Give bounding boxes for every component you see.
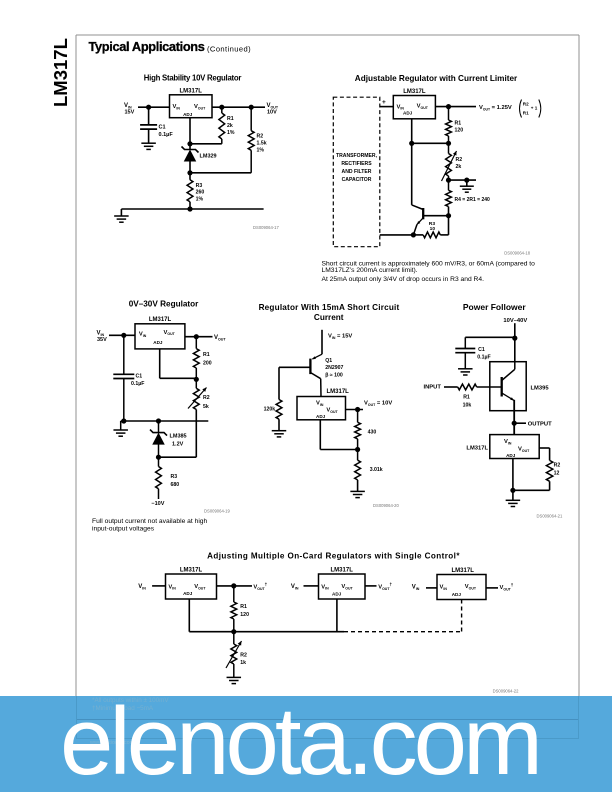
- pin ADJ label (c6 first): [183, 591, 193, 596]
- transistor Q1 (c2): [412, 205, 424, 235]
- svg-text:DS009064-18: DS009064-18: [504, 251, 531, 256]
- svg-text:ADJ: ADJ: [403, 111, 413, 116]
- svg-text:LM317L: LM317L: [452, 568, 475, 574]
- svg-text:input-output voltages: input-output voltages: [92, 526, 155, 533]
- node VIN label 15V (circuit 1): [124, 103, 135, 116]
- elenota.com text: [60, 694, 539, 790]
- junction input/C1 (c1): [146, 105, 151, 110]
- wire U1 ADJ down (c1): [189, 118, 191, 149]
- wire input (c6 third): [426, 587, 437, 589]
- svg-text:VOUT†: VOUT†: [253, 582, 267, 591]
- junction C1/rail (c3): [121, 418, 126, 423]
- circuit 1 title High Stability 10V Regulator: [144, 74, 242, 83]
- svg-text:120k: 120k: [264, 407, 276, 413]
- svg-text:200: 200: [203, 361, 212, 367]
- regulator U4 LM317L box (c4): [297, 389, 349, 420]
- wire U4 output (c4): [346, 409, 364, 411]
- svg-text:DS009064-19: DS009064-19: [204, 509, 231, 514]
- figure code DS009064-20: [373, 503, 400, 508]
- wire transformer to U2 (c2): [380, 106, 394, 108]
- ground rail (c1): [121, 208, 263, 210]
- node VIN 15V label (c4): [328, 334, 352, 340]
- junction zener/R2/R3 (c1): [187, 170, 192, 175]
- svg-text:Adjusting Multiple On-Card Reg: Adjusting Multiple On-Card Regulators wi…: [207, 551, 460, 560]
- wire 120k to ground (c4): [278, 419, 280, 431]
- svg-text:C1: C1: [159, 125, 166, 131]
- svg-text:0.1µF: 0.1µF: [131, 381, 144, 387]
- ground symbol (c2): [460, 186, 474, 192]
- svg-text:Adjustable Regulator with Curr: Adjustable Regulator with Current Limite…: [355, 74, 518, 83]
- svg-text:0.1µF: 0.1µF: [477, 355, 490, 361]
- pin VOUT label (c1): [194, 104, 206, 110]
- junction output/R1 (c6): [231, 583, 236, 588]
- wire base to 120k (c4): [279, 367, 310, 399]
- pin VIN label (c6 second): [321, 584, 329, 590]
- wire emitter to output node (c5): [513, 400, 515, 435]
- regulator U8 LM317L box (c6 second): [319, 568, 366, 600]
- svg-text:VIN: VIN: [412, 585, 420, 591]
- svg-text:β ≈ 100: β ≈ 100: [325, 372, 343, 378]
- svg-text:Current: Current: [314, 313, 344, 322]
- wire rail from transformer (c2): [380, 234, 414, 236]
- svg-text:Regulator With 15mA Short Circ: Regulator With 15mA Short Circuit: [259, 303, 400, 312]
- wire input (c3): [109, 334, 135, 336]
- junction ADJ/ground (c5): [510, 488, 515, 493]
- junction output/R1 (c2): [446, 104, 451, 109]
- footnote minimum load: [92, 705, 153, 712]
- pin VOUT label (c6 second): [341, 584, 353, 590]
- sidebar part number LM317L: [50, 38, 71, 107]
- svg-text:LM317LZ’s 200mA current limit): LM317LZ’s 200mA current limit).: [322, 267, 418, 274]
- wire 3.01k to ground (c4): [357, 480, 359, 492]
- wire input lead (c5): [444, 386, 458, 388]
- wire U1 output rail (c1): [212, 106, 265, 108]
- svg-text:ADJ: ADJ: [506, 453, 516, 458]
- node VOUT = 10V label (c4): [364, 401, 392, 407]
- wire to C1 (c5): [465, 337, 515, 348]
- svg-text:LM317L: LM317L: [403, 89, 426, 95]
- node VIN label (c6 second): [291, 584, 299, 590]
- junction output/R1 (c1): [219, 105, 224, 110]
- svg-text:VOUT: VOUT: [267, 103, 279, 109]
- wire output tick (c5): [514, 422, 526, 424]
- output equation VOUT = 1.25V (R2/R1 + 1) (c2): [479, 100, 541, 118]
- wire C1 to ground (c1): [148, 129, 150, 143]
- svg-text:1%: 1%: [196, 197, 204, 203]
- pin VIN label (c2): [397, 104, 405, 110]
- wire supply down (c5): [514, 323, 516, 362]
- svg-text:120: 120: [455, 128, 464, 134]
- svg-text:2k: 2k: [456, 164, 462, 170]
- ground rail (c3): [121, 420, 209, 422]
- svg-text:LM395: LM395: [531, 386, 550, 392]
- resistor 120k (c4): [264, 400, 282, 420]
- svg-text:LM385: LM385: [170, 434, 187, 440]
- svg-text:1.2V: 1.2V: [172, 442, 184, 448]
- svg-text:260: 260: [196, 190, 205, 196]
- svg-text:Q1: Q1: [325, 358, 332, 364]
- node VIN label (c6 third): [412, 585, 420, 591]
- resistor R1 2k 1% (c1): [219, 113, 235, 139]
- page frame border: [76, 35, 579, 738]
- svg-text:OUTPUT: OUTPUT: [528, 422, 552, 428]
- circuit 2 title Adjustable Regulator with Current Limiter: [355, 74, 518, 83]
- wire zener to lower node (c1): [189, 161, 191, 180]
- junction output/R1 (c3): [194, 334, 199, 339]
- wire C1 stem (c1): [148, 107, 150, 125]
- svg-text:LM317L: LM317L: [149, 317, 172, 323]
- svg-text:Full output current not availa: Full output current not available at hig…: [92, 518, 208, 525]
- caption short circuit current (c2): [322, 260, 536, 283]
- ground symbol (c3): [113, 430, 128, 436]
- svg-text:R2: R2: [203, 395, 210, 401]
- resistor R4 2R1 240 (c2): [446, 190, 490, 206]
- capacitor C1 0.1uF (c1): [140, 125, 173, 138]
- frame remnant lines under banner: [76, 719, 579, 720]
- regulator U3 LM317L box (c3): [135, 317, 185, 349]
- svg-text:R1: R1: [240, 604, 247, 610]
- wire R1 bottom to rail (c6): [233, 619, 235, 632]
- wire supply down to Q1 emitter (c4): [321, 330, 323, 354]
- wire R1 bottom to ADJ node (c1): [190, 139, 222, 144]
- pin VOUT label (c5): [518, 447, 530, 453]
- svg-text:R2: R2: [554, 463, 561, 469]
- svg-text:LM317L: LM317L: [180, 568, 203, 574]
- wire ADJ2 down (c6): [336, 599, 338, 632]
- svg-text:VIN: VIN: [97, 331, 105, 337]
- wire base link (c2): [424, 215, 449, 217]
- svg-text:R1: R1: [523, 111, 529, 116]
- junction OUTPUT (c5): [512, 421, 517, 426]
- regulator U6 LM317L box (c5): [490, 435, 539, 459]
- adjust rail dashed (c6): [344, 631, 462, 633]
- svg-text:VOUT†: VOUT†: [500, 583, 514, 592]
- wire C1 to ground (c5): [464, 353, 466, 369]
- pin ADJ label (c2): [403, 111, 413, 116]
- wire U2 output (c2): [435, 106, 476, 108]
- pin ADJ label (c1): [183, 112, 193, 117]
- node VOUT dagger label (c6 first): [253, 582, 267, 591]
- wire R1 bottom (c3): [195, 368, 197, 388]
- power transistor U5 LM395 box (c5): [490, 362, 550, 411]
- wire R3 to -10V (c3): [158, 489, 160, 499]
- resistor R3 260 1% (c1): [187, 180, 204, 203]
- node VOUT label (c3): [214, 335, 226, 341]
- pin VOUT label (c3): [164, 330, 176, 336]
- pin VOUT label (c2): [417, 104, 429, 110]
- svg-text:VIN = 15V: VIN = 15V: [328, 334, 352, 340]
- wire R1 top lead (c3): [195, 337, 197, 349]
- wire output (c6 third): [486, 587, 498, 589]
- svg-text:At 25mA output only 3/4V of dr: At 25mA output only 3/4V of drop occurs …: [322, 276, 485, 283]
- pin VIN label (c5): [504, 439, 512, 445]
- svg-text:1%: 1%: [227, 130, 235, 136]
- pin VIN label (c4): [316, 401, 324, 407]
- wire 430 bottom to ADJ node (c4): [357, 439, 359, 460]
- svg-text:15V: 15V: [125, 110, 135, 116]
- svg-text:10V–40V: 10V–40V: [503, 318, 527, 324]
- label LM317L (c5): [466, 446, 488, 452]
- potentiometer R2 1k (c6): [226, 632, 247, 668]
- node VIN label 35V (c3): [97, 331, 108, 344]
- node -10V label (c3): [151, 501, 164, 507]
- svg-text:2N2907: 2N2907: [325, 365, 343, 371]
- svg-text:R1: R1: [463, 394, 470, 400]
- ground symbol (c1): [114, 216, 128, 222]
- figure code DS009064-22: [493, 689, 520, 694]
- pin VIN label (c3): [139, 332, 147, 338]
- capacitor C1 0.1uF (c5): [455, 347, 490, 361]
- transistor inside LM395 (c5): [502, 362, 515, 401]
- regulator U1 LM317L box (c1): [170, 89, 213, 118]
- svg-text:High Stability 10V Regulator: High Stability 10V Regulator: [144, 74, 242, 83]
- footer url remnant: [90, 740, 134, 746]
- wire R1 top (c6): [233, 586, 235, 602]
- node VOUT dagger label (c6 third): [500, 583, 514, 592]
- svg-text:AND FILTER: AND FILTER: [342, 169, 372, 175]
- wire R1 top lead (c2): [448, 107, 450, 120]
- svg-text:VIN: VIN: [124, 103, 132, 109]
- svg-text:10: 10: [430, 226, 436, 232]
- caption full output current (c3): [92, 518, 208, 533]
- svg-text:ADJ: ADJ: [332, 592, 342, 597]
- svg-text:R2: R2: [523, 102, 529, 107]
- wire R4 to base node (c2): [448, 207, 450, 235]
- transistor Q1 2N2907 (c4): [310, 354, 343, 396]
- wire R1 to base (c5): [477, 386, 502, 388]
- circuit 5 title Power Follower: [463, 302, 527, 312]
- pin VIN label (c6 first): [168, 584, 176, 590]
- figure code DS009064-19: [204, 509, 231, 514]
- resistor 3.01k (c4): [355, 460, 383, 480]
- svg-text:TRANSFORMER,: TRANSFORMER,: [336, 153, 378, 159]
- resistor 430 (c4): [355, 422, 377, 439]
- svg-text:RECTIFIERS: RECTIFIERS: [341, 161, 372, 167]
- wire R2 to ground (c6): [233, 664, 235, 677]
- plus polarity mark (c2): [382, 99, 386, 106]
- pin VOUT label (c6 third): [465, 584, 477, 590]
- svg-text:10k: 10k: [463, 402, 472, 408]
- ground below C1 (c1): [141, 143, 156, 149]
- svg-text:VIN: VIN: [291, 584, 299, 590]
- junction output/430 (c4): [355, 407, 360, 412]
- wire output (c6 second): [365, 585, 377, 587]
- svg-text:35V: 35V: [97, 337, 107, 343]
- junction zener/rail (c3): [156, 418, 161, 423]
- svg-text:430: 430: [368, 430, 377, 436]
- resistor R2 12 (c5): [546, 460, 560, 481]
- node VIN label (c6 first): [138, 584, 146, 590]
- svg-text:12: 12: [554, 471, 560, 477]
- wire output (c6 first): [217, 585, 253, 587]
- ground symbol (c6): [227, 677, 242, 683]
- svg-text:LM317L: LM317L: [466, 446, 488, 452]
- junction ADJ node (c1): [187, 141, 192, 146]
- node VOUT label 10V (c1): [267, 103, 279, 116]
- footnote all outputs: [92, 697, 169, 704]
- wire zener bottom (c3): [158, 444, 160, 467]
- zener D1 LM329 (c1): [182, 147, 217, 162]
- ground below C1 (c5): [458, 369, 473, 375]
- svg-text:LM329: LM329: [200, 154, 217, 160]
- figure code DS009064-21: [537, 514, 564, 519]
- svg-text:C1: C1: [136, 374, 143, 380]
- potentiometer R2 5k (c3): [188, 388, 210, 411]
- wire R2 bottom to zener node (c1): [190, 150, 251, 173]
- wire input to U1 (c1): [138, 106, 170, 108]
- svg-text:R1: R1: [455, 121, 462, 127]
- junction ADJ/link (c2): [409, 141, 414, 146]
- svg-text:DS009064-21: DS009064-21: [537, 514, 564, 519]
- circuit 4 title Regulator With 15mA Short Circuit Current: [259, 303, 400, 322]
- wire zener top lead (c3): [158, 421, 160, 432]
- svg-text:ADJ: ADJ: [316, 414, 326, 419]
- svg-text:1k: 1k: [240, 660, 246, 666]
- wire U3 output (c3): [185, 336, 213, 338]
- wire across to zener node (c3): [159, 456, 197, 458]
- svg-text:120: 120: [240, 612, 249, 618]
- junction R1/rail (c6): [231, 629, 236, 634]
- heading Typical Applications: [89, 39, 252, 54]
- node OUTPUT label (c5): [528, 422, 552, 428]
- wire U6 ADJ down (c5): [512, 459, 514, 501]
- svg-text:(Continued): (Continued): [207, 45, 251, 54]
- svg-text:10V: 10V: [267, 110, 277, 116]
- junction output/R2 (c1): [249, 105, 254, 110]
- junction ADJ/R1/R2 (c3): [194, 377, 199, 382]
- svg-text:+: +: [382, 99, 386, 106]
- wire R1 top lead (c1): [221, 107, 223, 113]
- junction base link (c2): [446, 213, 451, 218]
- wire to ground (c2): [449, 180, 477, 186]
- svg-text:ADJ: ADJ: [183, 591, 193, 596]
- junction ground tap (c2): [464, 178, 469, 183]
- wire R2 top lead (c1): [250, 107, 252, 131]
- svg-text:−10V: −10V: [151, 501, 164, 507]
- pin VIN label (c6 third): [440, 585, 448, 591]
- regulator U7 LM317L box (c6 first): [166, 568, 217, 600]
- svg-text:VOUT = 1.25V: VOUT = 1.25V: [479, 105, 512, 111]
- junction emitter/rail (c2): [411, 232, 416, 237]
- wire rail end ground (c3): [120, 421, 122, 430]
- zener D1 LM385 1.2V (c3): [150, 430, 187, 448]
- wire U3 ADJ down and across (c3): [160, 349, 197, 378]
- pin ADJ label (c4): [316, 414, 326, 419]
- svg-text:CAPACITOR: CAPACITOR: [342, 177, 372, 183]
- regulator U9 LM317L box (c6 third): [437, 568, 486, 600]
- junction supply/C1 (c5): [512, 336, 517, 341]
- resistor R2 1.5k 1% (c1): [248, 131, 266, 154]
- svg-text:680: 680: [171, 482, 180, 488]
- svg-text:R3: R3: [196, 183, 203, 189]
- circuit 6 title Adjusting Multiple On-Card Regulators with Single Control: [207, 551, 460, 560]
- svg-text:VOUT†: VOUT†: [378, 582, 392, 591]
- svg-text:INPUT: INPUT: [424, 385, 442, 391]
- node supply 10V-40V label (c5): [503, 318, 527, 324]
- svg-text:LM317L: LM317L: [327, 389, 350, 395]
- svg-text:0V–30V Regulator: 0V–30V Regulator: [129, 300, 199, 309]
- svg-text:+ 1: + 1: [531, 105, 538, 110]
- elenota.com banner: [0, 696, 612, 792]
- resistor R1 10k (c5): [458, 384, 477, 408]
- wire input (c6 first): [152, 585, 165, 587]
- wire ADJ1 down (c6): [188, 599, 190, 632]
- wire 430 top lead (c4): [357, 410, 359, 423]
- transformer block dashed box (c2): [333, 97, 380, 247]
- svg-text:R4 = 2R1 = 240: R4 = 2R1 = 240: [455, 197, 491, 203]
- wire R2 bottom to ADJ node (c5): [513, 481, 550, 490]
- svg-text:VOUT = 10V: VOUT = 10V: [364, 401, 392, 407]
- node INPUT label (c5): [424, 385, 442, 391]
- figure code DS009064-18: [504, 251, 531, 256]
- wire R1 bottom to ADJ link (c2): [412, 136, 449, 154]
- junction link/R1R2 (c2): [446, 141, 451, 146]
- figure code DS009064-17: [253, 225, 280, 230]
- svg-text:R3: R3: [171, 474, 178, 480]
- svg-text:LM317L: LM317L: [180, 89, 203, 95]
- resistor R3 10 (c2): [423, 221, 440, 238]
- wire VOUT to R2 (c5): [539, 448, 549, 460]
- svg-text:Power Follower: Power Follower: [463, 302, 527, 312]
- wire U4 ADJ down across (c4): [320, 420, 357, 450]
- svg-text:ADJ: ADJ: [183, 112, 193, 117]
- wire R2 bottom to sense node (c2): [448, 176, 450, 190]
- svg-text:LM317L: LM317L: [331, 568, 354, 574]
- svg-text:DS009064-17: DS009064-17: [253, 225, 280, 230]
- pin VOUT label (c6 first): [194, 584, 206, 590]
- svg-text:ADJ: ADJ: [452, 592, 462, 597]
- wire R3 right lead (c2): [440, 234, 448, 236]
- svg-text:R2: R2: [456, 157, 463, 163]
- adjust rail solid (c6): [189, 631, 344, 633]
- svg-text:5k: 5k: [203, 404, 209, 410]
- svg-text:1%: 1%: [257, 148, 265, 154]
- svg-text:VIN: VIN: [138, 584, 146, 590]
- junction R3/rail (c1): [187, 206, 192, 211]
- resistor R1 120 (c6): [231, 602, 249, 619]
- resistor R1 120 (c2): [446, 120, 464, 136]
- ground symbol bottom (c4): [350, 491, 365, 497]
- wire input (c6 second): [304, 585, 319, 587]
- svg-text:LM317L: LM317L: [50, 38, 71, 107]
- node VOUT dagger label (c6 second): [378, 582, 392, 591]
- regulator U2 LM317L box (c2): [393, 89, 435, 119]
- resistor R3 680 (c3): [156, 467, 180, 489]
- junction input/C1 (c3): [121, 333, 126, 338]
- potentiometer R2 2k (c2): [442, 151, 463, 181]
- pin ADJ label (c5): [506, 453, 516, 458]
- pin ADJ label (c3): [153, 340, 163, 345]
- ground symbol (c5): [506, 500, 521, 506]
- svg-text:C1: C1: [478, 347, 485, 353]
- circuit 3 title 0V-30V Regulator: [129, 300, 199, 309]
- wire emitter lead to R3 (c2): [413, 234, 423, 236]
- pin ADJ label (c6 third): [452, 592, 462, 597]
- svg-text:R2: R2: [240, 653, 247, 659]
- wire rail to ground (c1): [120, 209, 122, 216]
- pin VIN label (c1): [173, 104, 181, 110]
- svg-text:DS009064-20: DS009064-20: [373, 503, 400, 508]
- footer url www.national.com: [89, 740, 135, 746]
- svg-text:R1: R1: [203, 352, 210, 358]
- capacitor C1 (c3): [113, 335, 144, 421]
- svg-text:1.5k: 1.5k: [257, 141, 267, 147]
- svg-text:ADJ: ADJ: [153, 340, 163, 345]
- wire R3 to ground rail (c1): [189, 202, 191, 209]
- svg-text:3.01k: 3.01k: [370, 467, 383, 473]
- svg-text:0.1µF: 0.1µF: [159, 132, 174, 138]
- wire R2 bottom down (c3): [195, 410, 197, 458]
